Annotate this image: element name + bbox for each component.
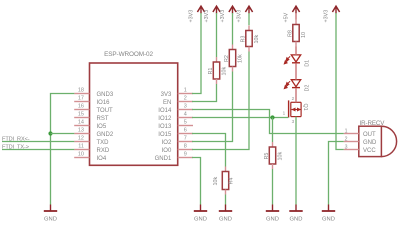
wire pin7 IO2 to R2 — [192, 72, 233, 142]
svg-text:3V3: 3V3 — [161, 92, 172, 98]
resistor R1 10k (EN pull-up) — [208, 57, 228, 84]
junction at IO12 / R5 — [270, 115, 274, 119]
resistor R8 10 (LED series) — [288, 20, 308, 47]
wire junction to pin13 GND2 — [51, 133, 75, 135]
svg-text:+5V: +5V — [284, 12, 290, 22]
U1 pin 3 IO14 — [158, 104, 193, 114]
svg-text:1: 1 — [184, 88, 187, 94]
svg-text:10k: 10k — [238, 54, 244, 63]
svg-text:R3: R3 — [241, 36, 247, 43]
wire +5V to R8 — [295, 13, 297, 20]
svg-text:15: 15 — [78, 112, 84, 118]
wire pin18 GND3 to ground rail — [51, 94, 75, 205]
svg-text:GND1: GND1 — [155, 156, 172, 162]
svg-text:1: 1 — [283, 111, 286, 116]
svg-text:IO0: IO0 — [162, 148, 172, 154]
U1 pin 15 RST — [74, 112, 109, 122]
svg-text:Q1: Q1 — [302, 104, 308, 111]
wire R3 to +3V3 — [248, 13, 250, 25]
svg-text:IO12: IO12 — [158, 116, 172, 122]
svg-text:IO13: IO13 — [158, 124, 172, 130]
U1 pin 8 IO0 — [162, 144, 193, 154]
ground symbol (IR receiver GND net) — [322, 205, 335, 223]
U1 pin 14 IO5 — [74, 120, 107, 130]
svg-text:17: 17 — [78, 96, 84, 102]
U1 pin 2 EN — [163, 96, 193, 106]
svg-text:GND: GND — [322, 217, 335, 223]
U1 pin 1 3V3 — [161, 88, 193, 98]
svg-text:GND: GND — [363, 140, 377, 146]
U1 pin 10 IO4 — [74, 152, 107, 162]
svg-text:10k: 10k — [213, 177, 219, 186]
wire Q1 source to ground — [295, 117, 297, 205]
svg-text:GND: GND — [266, 217, 279, 223]
svg-text:3: 3 — [184, 104, 187, 110]
svg-text:10: 10 — [301, 32, 307, 38]
svg-text:R5: R5 — [264, 153, 270, 160]
svg-text:2: 2 — [292, 96, 295, 101]
svg-text:7: 7 — [184, 136, 187, 142]
wire pin6 IO15 to R4 — [192, 134, 226, 167]
ground symbol (R5 net) — [266, 205, 279, 223]
U1 pin 13 GND2 — [74, 128, 114, 138]
svg-text:EN: EN — [163, 100, 171, 106]
wire junction to R5 — [272, 118, 274, 143]
U2 pin 2 GND — [344, 136, 377, 146]
svg-text:2: 2 — [345, 136, 348, 142]
svg-text:11: 11 — [78, 144, 84, 150]
LED D1 — [284, 55, 310, 67]
svg-text:2: 2 — [184, 96, 187, 102]
svg-text:3: 3 — [292, 119, 295, 124]
U2 pin 1 OUT — [344, 128, 376, 138]
svg-text:RST: RST — [97, 116, 109, 122]
wire IR GND to ground — [329, 142, 344, 205]
svg-text:GND: GND — [290, 217, 303, 223]
wire pin2 EN to R1 — [192, 84, 217, 102]
svg-text:IO16: IO16 — [97, 100, 111, 106]
svg-text:GND: GND — [219, 217, 232, 223]
wire R5 to ground — [272, 169, 274, 205]
svg-text:+3V3: +3V3 — [324, 10, 330, 23]
wire pin1 3V3 to +3V3 — [192, 13, 201, 94]
ESP-WROOM-02 module U1 body — [90, 63, 178, 165]
svg-text:GND: GND — [194, 217, 207, 223]
wire R2 to +3V3 — [232, 13, 234, 45]
svg-text:18: 18 — [78, 88, 84, 94]
svg-text:8: 8 — [184, 144, 187, 150]
U1 pin 18 GND3 — [74, 88, 114, 98]
wire pin8 IO0 to R3 — [192, 52, 249, 150]
N-MOSFET Q1 — [283, 96, 309, 124]
svg-text:IO5: IO5 — [97, 124, 107, 130]
LED D2 — [284, 80, 310, 92]
+3V3 supply symbol (pin 1 3V3 net) — [189, 6, 205, 22]
svg-text:TOUT: TOUT — [97, 108, 114, 114]
svg-text:+3V3: +3V3 — [204, 10, 210, 23]
svg-text:D2: D2 — [305, 85, 311, 92]
svg-text:OUT: OUT — [363, 132, 376, 138]
ground symbol (Q1 source net) — [289, 205, 302, 223]
U1 pin 7 IO2 — [162, 136, 193, 146]
wire pin9 GND1 to ground — [192, 158, 201, 205]
svg-text:R4: R4 — [229, 178, 235, 185]
svg-text:+3V3: +3V3 — [237, 10, 243, 23]
svg-text:+3V3: +3V3 — [189, 10, 195, 23]
svg-text:VCC: VCC — [363, 148, 376, 154]
svg-text:10k: 10k — [222, 67, 228, 76]
svg-text:4: 4 — [184, 112, 187, 118]
IR receiver U2 body — [359, 126, 397, 156]
wire D1 cathode to D2 anode — [295, 63, 297, 79]
U1 pin 12 TXD — [74, 136, 109, 146]
junction at GND rail / pin13 — [48, 131, 52, 135]
svg-text:IO15: IO15 — [158, 132, 172, 138]
svg-text:5: 5 — [184, 120, 187, 126]
svg-text:TXD: TXD — [97, 140, 110, 146]
+3V3 supply symbol (R2 net) — [220, 6, 236, 22]
resistor R3 10k (IO0 pull-up) — [241, 26, 261, 52]
ground symbol (R4 net) — [219, 205, 232, 223]
+3V3 supply symbol (IR receiver VCC net) — [324, 6, 340, 22]
svg-text:9: 9 — [184, 152, 187, 158]
svg-text:10k: 10k — [278, 152, 284, 161]
U1 pin 9 GND1 — [155, 152, 193, 162]
svg-text:16: 16 — [78, 104, 84, 110]
svg-text:14: 14 — [78, 120, 84, 126]
U2 pin 3 VCC — [344, 144, 377, 154]
wire R4 to ground — [225, 195, 227, 205]
svg-text:IR-RECV: IR-RECV — [360, 120, 386, 127]
svg-text:GND3: GND3 — [97, 92, 114, 98]
U1 pin 11 RXD — [74, 144, 110, 154]
ground symbol (GND1 net) — [194, 205, 207, 223]
svg-text:12: 12 — [78, 136, 84, 142]
wire pin4 IO12 to Q1 gate — [192, 117, 288, 119]
wire FTDI_TX to pin11 RXD — [2, 149, 74, 151]
U1 pin 4 IO12 — [158, 112, 193, 122]
+3V3 supply symbol (R1 net) — [204, 6, 220, 22]
svg-text:R2: R2 — [224, 55, 230, 62]
resistor R2 10k (IO2 pull-up) — [224, 45, 244, 72]
svg-text:1: 1 — [345, 128, 348, 134]
svg-text:IO2: IO2 — [162, 140, 172, 146]
svg-text:RXD: RXD — [97, 148, 110, 154]
U1 pin 17 IO16 — [74, 96, 110, 106]
+5V supply symbol (R8 / LED net) — [284, 6, 300, 22]
svg-text:GND: GND — [44, 217, 57, 223]
wire R8 to D1 anode — [295, 47, 297, 55]
svg-text:10k: 10k — [254, 35, 260, 44]
wire D2 cathode to Q1 drain — [295, 88, 297, 102]
svg-text:GND2: GND2 — [97, 132, 114, 138]
svg-text:6: 6 — [184, 128, 187, 134]
U1 pin 6 IO15 — [158, 128, 193, 138]
wire FTDI_RX to pin12 TXD — [2, 141, 74, 143]
svg-text:3: 3 — [345, 144, 348, 150]
svg-text:10: 10 — [78, 152, 84, 158]
ground symbol (left / GND2-GND3 net) — [44, 205, 57, 223]
wire R1 to +3V3 — [216, 13, 218, 57]
svg-text:+3V3: +3V3 — [220, 10, 226, 23]
svg-text:R1: R1 — [208, 68, 214, 75]
wire pin3 IO14 to IR OUT — [192, 110, 344, 134]
svg-text:13: 13 — [78, 128, 84, 134]
svg-text:ESP-WROOM-02: ESP-WROOM-02 — [104, 51, 153, 58]
resistor R4 10k (IO15 pull-down) — [213, 167, 235, 195]
svg-text:IO14: IO14 — [158, 108, 172, 114]
svg-text:IO4: IO4 — [97, 156, 107, 162]
+3V3 supply symbol (R3 net) — [237, 6, 253, 22]
resistor R5 10k (gate pull-down) — [264, 142, 284, 169]
svg-text:R8: R8 — [288, 30, 294, 37]
svg-text:D1: D1 — [305, 60, 311, 67]
wire +3V3 to IR VCC — [336, 13, 344, 150]
U1 pin 5 IO13 — [158, 120, 193, 130]
U1 pin 16 TOUT — [74, 104, 113, 114]
